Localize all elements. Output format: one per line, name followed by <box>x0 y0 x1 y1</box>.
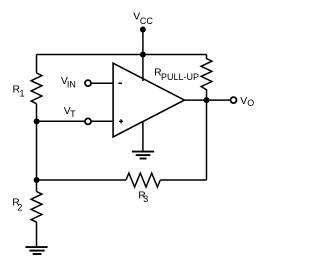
resistor R2 <box>31 192 42 223</box>
ground op-amp <box>132 152 154 159</box>
wire bottom right segment <box>160 179 206 181</box>
svg-text:1: 1 <box>20 89 25 99</box>
resistor RPULL-UP <box>201 55 212 101</box>
wire left rail mid segment <box>36 104 38 180</box>
wire op-amp output <box>184 99 230 101</box>
wire VCC down to op-amp power pin <box>142 30 144 82</box>
terminal VIN <box>85 80 91 86</box>
wire VIN to op-amp <box>91 82 113 84</box>
label RPULL-UP <box>154 68 199 83</box>
svg-text:PULL-UP: PULL-UP <box>161 72 199 82</box>
resistor R1 <box>31 73 42 104</box>
wire R2 lower lead <box>36 222 38 247</box>
label R1 <box>13 85 25 99</box>
wire bottom left segment <box>37 179 127 181</box>
node VCC junction on top rail <box>140 52 146 58</box>
op-amp plus sign <box>119 119 123 123</box>
svg-text:IN: IN <box>67 80 76 90</box>
resistor R3 <box>126 173 160 187</box>
label R2 <box>12 198 22 213</box>
wire R2 upper lead <box>36 180 38 192</box>
svg-text:T: T <box>70 109 76 119</box>
label VT <box>64 106 76 119</box>
node VT junction <box>34 118 40 124</box>
node VO junction <box>204 97 210 103</box>
wire right rail <box>206 100 208 180</box>
label R3 <box>138 190 148 204</box>
terminal VO <box>231 97 237 103</box>
svg-text:3: 3 <box>143 194 148 204</box>
label VIN <box>61 76 76 89</box>
svg-text:CC: CC <box>140 16 153 26</box>
label VO <box>240 96 254 108</box>
op-amp minus sign <box>118 82 122 84</box>
wire op-amp ground stem <box>142 122 144 151</box>
ground R2 <box>25 247 47 254</box>
node VCC terminal dot <box>140 27 146 33</box>
node R2 top junction <box>34 177 40 183</box>
wire VT to op-amp <box>37 120 114 122</box>
op-amp U1 <box>113 63 184 137</box>
wire left rail upper segment <box>36 55 38 74</box>
label VCC <box>133 11 153 26</box>
terminal VT <box>85 118 91 124</box>
wire top rail <box>37 54 207 56</box>
svg-text:2: 2 <box>17 202 22 212</box>
svg-text:O: O <box>247 98 254 108</box>
